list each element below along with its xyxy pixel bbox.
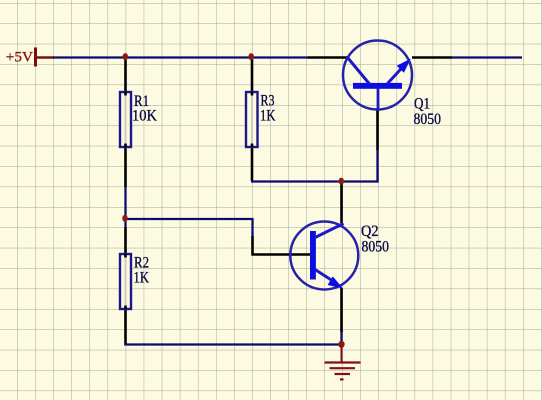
R3 top pin — [251, 58, 254, 92]
junction dot top rail / R3 — [249, 53, 254, 60]
svg-text:8050: 8050 — [414, 111, 442, 128]
Q1 emitter arrow — [397, 59, 411, 73]
wire bottom rail — [125, 343, 343, 345]
wire Q1 base vertical lower — [376, 150, 378, 183]
svg-text:+5V: +5V — [6, 50, 33, 66]
svg-text:1K: 1K — [260, 108, 276, 125]
Q1 base lead — [377, 88, 380, 110]
Q2 base bar — [310, 231, 316, 280]
Q2 collector pin — [340, 182, 343, 224]
ground bar 4 — [340, 378, 344, 380]
Q1 circle — [343, 41, 412, 110]
Q1 base pin — [376, 110, 379, 150]
resistor R2 body — [120, 254, 131, 309]
wire Q2 emitter to ground node — [340, 332, 342, 346]
Q2 base pin horizontal — [252, 253, 312, 256]
ground bar 3 — [335, 373, 351, 375]
wire node A corner down — [251, 218, 253, 236]
Q2 base pin vertical — [251, 236, 254, 256]
ground bar 1 — [325, 361, 361, 363]
resistor R3 body — [246, 92, 258, 147]
R2 top pin — [124, 227, 127, 254]
wire node A horizontal — [125, 218, 254, 220]
svg-text:1K: 1K — [134, 269, 150, 286]
Q1 emitter diagonal — [388, 65, 406, 84]
ground bar 2 — [330, 367, 356, 369]
transistor Q2 — [290, 222, 358, 290]
Q2 emitter arrow — [328, 276, 343, 288]
junction dot mid rail / Q2 collector — [339, 178, 344, 185]
junction dot node A — [122, 215, 127, 222]
Q1 emitter pin (horizontal) — [412, 56, 452, 59]
Q2 emitter diagonal — [315, 270, 336, 284]
R3 bottom pin — [251, 147, 254, 181]
Q1 collector pin (horizontal) — [308, 56, 348, 59]
junction dot top rail / R1 — [123, 53, 128, 60]
wire top rail left — [53, 56, 308, 58]
power port +5V bar — [34, 48, 54, 67]
transistor Q1 — [343, 41, 412, 111]
Q2 circle — [290, 222, 358, 290]
R1 top pin — [124, 58, 127, 92]
svg-text:Q2: Q2 — [361, 223, 379, 240]
wire R1 to node A — [124, 187, 126, 227]
svg-text:Q1: Q1 — [414, 95, 430, 112]
R2 bottom pin — [124, 309, 127, 346]
R1 bottom pin — [124, 147, 127, 187]
ground stem — [341, 345, 343, 363]
wire mid rail (R3 to Q1 base corner) — [251, 180, 379, 182]
Q2 emitter pin — [340, 288, 343, 332]
wire top rail right — [452, 56, 522, 58]
Q2 collector diagonal — [315, 224, 344, 238]
svg-text:8050: 8050 — [362, 239, 390, 256]
ground symbol — [325, 345, 361, 379]
Q1 collector diagonal — [348, 58, 370, 85]
junction dot ground node — [338, 341, 344, 348]
svg-text:10K: 10K — [132, 107, 157, 124]
resistor R1 body — [120, 92, 131, 147]
power port lead — [36, 56, 54, 59]
Q1 base bar — [353, 83, 402, 89]
